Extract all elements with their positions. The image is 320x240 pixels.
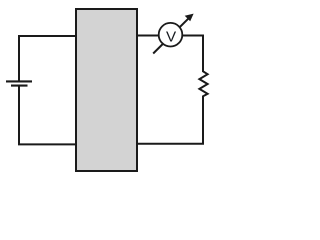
svg-text:V: V: [166, 29, 177, 46]
